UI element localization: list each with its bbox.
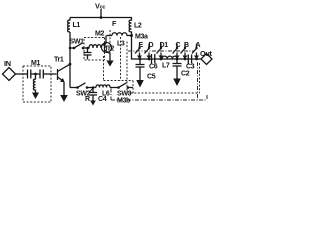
svg-text:C5: C5 <box>147 74 156 81</box>
band contact C <box>176 42 181 49</box>
band contact B <box>184 42 189 49</box>
mechanical link right vertical <box>197 62 199 100</box>
capacitor C2 <box>173 59 182 79</box>
link vertical mid <box>120 37 122 81</box>
Vcc supply label <box>95 2 105 11</box>
inductor L2 <box>129 18 131 36</box>
transistor Tr1 <box>54 57 64 64</box>
wire IN to M1 <box>16 73 28 75</box>
node C4 tap <box>92 86 95 89</box>
mechanical link right corner <box>206 95 208 100</box>
inductor L1 <box>68 18 70 33</box>
band contact E <box>139 42 144 49</box>
ground arrow C4 <box>90 101 96 106</box>
svg-text:L1: L1 <box>73 22 81 29</box>
module M2 box <box>84 38 105 61</box>
switch SW2 <box>76 91 91 98</box>
node D1 tap <box>160 58 163 61</box>
capacitor M1 second <box>36 70 57 79</box>
label M3a <box>135 34 148 41</box>
node L2/L3 junction <box>130 34 133 37</box>
node M1 mid <box>34 73 37 76</box>
node B tap <box>184 58 187 61</box>
ground arrow C2 <box>173 79 181 87</box>
port IN <box>4 59 11 68</box>
label F <box>112 21 117 28</box>
band contact A <box>196 42 201 49</box>
svg-text:Tr1: Tr1 <box>54 57 64 64</box>
inductor L6 <box>96 85 110 88</box>
wire Vcc drop <box>100 9 102 17</box>
inductor M2 coil <box>88 45 106 48</box>
contact R blade <box>89 89 93 94</box>
mechanical link left vertical <box>110 89 112 101</box>
svg-text:SW1: SW1 <box>70 39 85 46</box>
module M3a box right edge <box>199 63 201 93</box>
svg-text:M1: M1 <box>31 60 40 67</box>
node M2 input <box>86 47 89 50</box>
mechanical link row <box>128 50 195 52</box>
switch SW3 <box>117 91 132 98</box>
svg-text:C2: C2 <box>181 71 190 78</box>
node C2 tap <box>176 58 179 61</box>
module M3b right edge <box>132 81 134 94</box>
svg-text:IN: IN <box>4 59 11 68</box>
band contact D1 <box>160 42 169 49</box>
ground arrow M1 <box>32 93 39 100</box>
ground arrow C5 <box>136 80 144 88</box>
inductor L7 <box>162 56 178 59</box>
capacitor C5 <box>136 59 145 81</box>
band contact D <box>149 42 154 49</box>
capacitor M1 first <box>28 70 36 79</box>
wire Vcc rail <box>70 17 132 19</box>
link vertical near L3 <box>109 30 111 48</box>
wire L6 to SW3 <box>110 87 118 89</box>
capacitor M2 shunt <box>84 48 92 60</box>
capacitor C4 <box>89 88 97 101</box>
wire collector column <box>69 32 71 88</box>
link vertical left of M3b <box>103 56 105 81</box>
transistor Tr2 <box>105 46 115 53</box>
port Out <box>200 49 213 58</box>
svg-text:L7: L7 <box>162 63 170 70</box>
wire Tr1 emitter drop <box>63 82 65 96</box>
svg-text:L6: L6 <box>102 91 110 98</box>
module M3b top edge <box>104 80 134 82</box>
wire bottom row <box>70 87 77 89</box>
wire main drop to output line <box>132 36 202 60</box>
svg-text:C6: C6 <box>149 64 158 71</box>
svg-text:L2: L2 <box>134 23 142 30</box>
module M1 box <box>23 66 51 102</box>
mechanical link bottom <box>111 99 207 101</box>
svg-text:M2: M2 <box>95 31 104 38</box>
inductor L3 <box>112 33 132 36</box>
ground arrow Tr2 emitter <box>106 61 113 67</box>
node Vcc junction <box>100 16 103 19</box>
ground arrow Tr1 emitter <box>60 95 68 102</box>
switch SW1 <box>70 39 85 46</box>
node D tap <box>148 58 151 61</box>
svg-text:M3a: M3a <box>135 34 148 41</box>
node Tr1 collector <box>69 63 72 66</box>
node A tap <box>195 58 198 61</box>
svg-text:M3b: M3b <box>117 98 130 105</box>
capacitor C3 <box>188 55 191 64</box>
capacitor C6 <box>152 54 155 64</box>
inductor M1 shunt <box>33 74 35 93</box>
svg-text:C3: C3 <box>186 64 195 71</box>
svg-text:SW3: SW3 <box>117 91 132 98</box>
node C5 tap <box>139 58 142 61</box>
svg-text:R: R <box>85 96 90 103</box>
wire collector line y35 <box>107 35 113 37</box>
module M3a box bottom edge <box>127 92 200 94</box>
module M3a box left edge <box>126 42 128 94</box>
